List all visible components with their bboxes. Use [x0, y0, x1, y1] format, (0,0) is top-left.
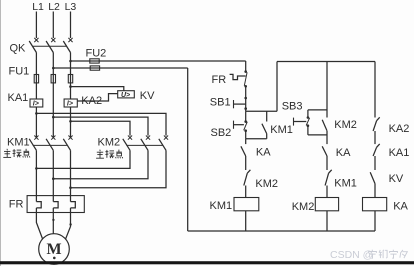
- svg-text:CSDN @: CSDN @: [330, 249, 373, 261]
- svg-text:SB1: SB1: [210, 97, 231, 109]
- svg-text:FU2: FU2: [86, 48, 107, 60]
- svg-text:KM1: KM1: [270, 124, 293, 136]
- svg-text:SB3: SB3: [282, 100, 303, 112]
- svg-text:KM1: KM1: [334, 178, 357, 190]
- svg-text:I>: I>: [33, 101, 39, 108]
- svg-text:L2: L2: [48, 1, 60, 13]
- svg-text:KA: KA: [393, 201, 408, 213]
- svg-text:KA1: KA1: [8, 92, 29, 104]
- svg-text:U>: U>: [121, 92, 130, 99]
- svg-text:KM2: KM2: [255, 178, 278, 190]
- svg-text:KV: KV: [140, 90, 155, 102]
- svg-text:QK: QK: [10, 43, 27, 55]
- svg-text:FR: FR: [212, 74, 227, 86]
- svg-text:KA: KA: [336, 147, 351, 159]
- svg-text:SB2: SB2: [211, 127, 232, 139]
- svg-text:KA: KA: [256, 147, 271, 159]
- svg-text:KM1: KM1: [7, 137, 30, 149]
- svg-text:I>: I>: [67, 101, 73, 108]
- svg-text:L1: L1: [32, 1, 44, 13]
- svg-text:KV: KV: [389, 173, 404, 185]
- svg-text:KA2: KA2: [389, 123, 410, 135]
- svg-text:KM1: KM1: [210, 200, 233, 212]
- svg-text:KA1: KA1: [389, 147, 410, 159]
- svg-text:M: M: [46, 241, 61, 258]
- svg-text:KM2: KM2: [292, 201, 315, 213]
- svg-text:FR: FR: [9, 199, 24, 211]
- svg-text:KM2: KM2: [98, 137, 121, 149]
- svg-text:FU1: FU1: [9, 66, 30, 78]
- svg-text:L3: L3: [65, 1, 77, 13]
- svg-text:KM2: KM2: [334, 119, 357, 131]
